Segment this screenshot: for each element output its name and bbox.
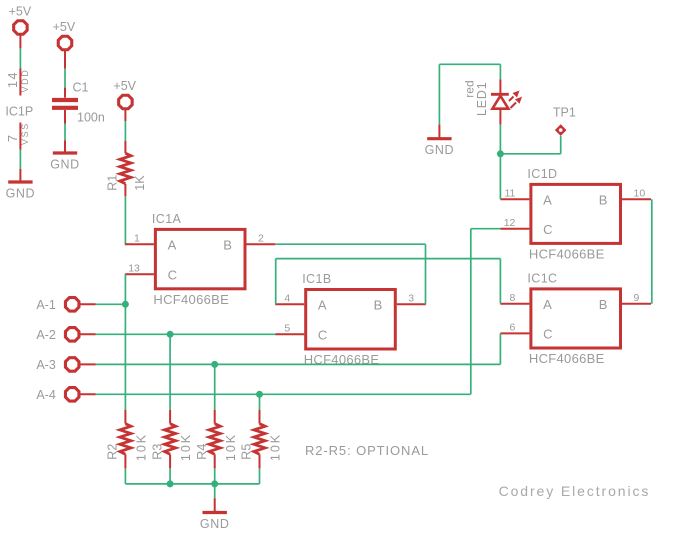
pin stub from +5V pad bbox=[19, 33, 21, 48]
wire IC1D pin10 to IC1C pin9 bbox=[651, 199, 653, 304]
junction A-3 bbox=[211, 361, 218, 368]
wire IC1B pin4 to IC1C pin8 bbox=[275, 259, 277, 305]
pin stub from A-1 bbox=[78, 303, 96, 305]
svg-text:1K: 1K bbox=[133, 175, 147, 191]
capacitor C1 100n bbox=[64, 88, 66, 98]
pin stub to GND bar (LED) bbox=[438, 125, 440, 139]
wire +5V to R1 bbox=[124, 121, 126, 141]
wire A-1 node down to R2 bbox=[124, 304, 126, 410]
svg-text:GND: GND bbox=[50, 158, 80, 172]
wire IC1A pin2 to IC1B pin3 bbox=[276, 243, 426, 245]
wire R2 to ground rail bbox=[124, 468, 126, 484]
pin stub from A-4 bbox=[78, 393, 96, 395]
svg-text:A: A bbox=[168, 237, 177, 252]
wire LED net top bbox=[439, 63, 500, 65]
LED1 emission arrow 1 bbox=[509, 97, 514, 102]
svg-text:2: 2 bbox=[258, 232, 264, 244]
svg-text:14: 14 bbox=[6, 71, 20, 88]
wire R4 to ground rail bbox=[214, 468, 216, 484]
svg-text:TP1: TP1 bbox=[553, 106, 576, 120]
IC1C pin 9 (B) bbox=[622, 303, 651, 305]
ground GND (LED) bbox=[427, 137, 451, 140]
svg-text:1: 1 bbox=[134, 232, 140, 244]
svg-text:R5: R5 bbox=[240, 444, 254, 460]
IC1D pin 11 (A) bbox=[500, 198, 529, 200]
junction A-4 bbox=[256, 391, 263, 398]
pin stub to GND bar bbox=[64, 140, 66, 153]
wire +5V to C1 bbox=[64, 69, 66, 88]
wire A-2 node down to R3 bbox=[169, 334, 171, 410]
IC1A pin 13 (C) bbox=[125, 273, 154, 275]
wire IC1A pin13 riser bbox=[124, 274, 126, 304]
IC IC1A HCF4066BE box bbox=[155, 229, 245, 288]
ground GND (IC1P) bbox=[8, 180, 32, 183]
wire A-1 to node bbox=[96, 303, 126, 305]
wire A-2 to IC1B pin5 bbox=[96, 333, 276, 335]
svg-text:B: B bbox=[223, 237, 232, 252]
svg-text:C: C bbox=[318, 328, 327, 343]
svg-text:R3: R3 bbox=[150, 444, 164, 460]
IC IC1B HCF4066BE box bbox=[306, 290, 396, 350]
svg-text:HCF4066BE: HCF4066BE bbox=[153, 292, 229, 307]
svg-text:IC1C: IC1C bbox=[527, 271, 557, 285]
ground GND (resistor network) bbox=[203, 511, 227, 514]
svg-text:Codrey Electronics: Codrey Electronics bbox=[499, 483, 651, 499]
svg-text:A: A bbox=[543, 192, 552, 207]
svg-text:HCF4066BE: HCF4066BE bbox=[529, 351, 605, 366]
IC1D pin 12 (C) bbox=[500, 228, 529, 230]
svg-text:A-4: A-4 bbox=[36, 388, 56, 402]
pin stub from +5V pad bbox=[64, 49, 66, 69]
wire A-4 node down to R5 bbox=[259, 394, 261, 410]
svg-text:R2: R2 bbox=[106, 444, 120, 460]
svg-text:R1: R1 bbox=[106, 175, 120, 191]
resistor R2 10K bbox=[124, 410, 126, 424]
svg-text:B: B bbox=[374, 298, 383, 313]
ground GND (C1) bbox=[53, 151, 77, 154]
IC1P pin 14 VDD bbox=[19, 68, 21, 95]
svg-text:8: 8 bbox=[510, 292, 516, 304]
svg-text:R4: R4 bbox=[195, 444, 209, 460]
wire C1 to GND bbox=[64, 124, 66, 141]
svg-text:IC1P: IC1P bbox=[5, 105, 33, 119]
IC1D pin 10 (B) bbox=[622, 198, 651, 200]
svg-text:LED1: LED1 bbox=[475, 82, 489, 116]
svg-text:GND: GND bbox=[425, 143, 455, 157]
svg-text:C: C bbox=[543, 327, 552, 342]
junction LED/TP1 bbox=[497, 150, 504, 157]
resistor R4 10K bbox=[214, 410, 216, 424]
svg-text:R2-R5: OPTIONAL: R2-R5: OPTIONAL bbox=[305, 443, 429, 458]
pad A-3 bbox=[65, 358, 78, 371]
pad A-4 bbox=[65, 388, 78, 401]
power +5V symbol (IC1P) bbox=[14, 21, 27, 34]
LED1 emission arrow 2 bbox=[511, 103, 517, 109]
wire top to LED cathode bbox=[499, 64, 501, 79]
test point TP1 bbox=[555, 124, 567, 136]
IC1P pin 7 VSS bbox=[19, 123, 21, 150]
svg-text:7: 7 bbox=[6, 135, 20, 142]
svg-text:A-1: A-1 bbox=[36, 298, 56, 312]
svg-text:IC1A: IC1A bbox=[152, 212, 182, 226]
IC IC1D HCF4066BE box bbox=[531, 184, 621, 243]
resistor R5 10K bbox=[259, 410, 261, 424]
wire A-3 to IC1C pin6 bbox=[96, 363, 501, 365]
svg-text:VSS: VSS bbox=[20, 122, 30, 145]
junction A-1 bbox=[122, 301, 129, 308]
svg-text:10K: 10K bbox=[269, 433, 283, 461]
wire R5 to ground rail bbox=[259, 468, 261, 484]
IC1C pin 6 (C) bbox=[500, 332, 529, 334]
svg-text:3: 3 bbox=[408, 292, 414, 304]
wire R3 to ground rail bbox=[169, 468, 171, 484]
junction R4 rail bbox=[211, 480, 218, 487]
svg-text:+5V: +5V bbox=[53, 20, 76, 34]
pin stub to GND bar bbox=[19, 169, 21, 182]
svg-text:IC1D: IC1D bbox=[527, 167, 557, 181]
svg-text:A-3: A-3 bbox=[36, 358, 56, 372]
svg-text:A: A bbox=[318, 298, 327, 313]
svg-text:GND: GND bbox=[6, 187, 36, 201]
svg-text:GND: GND bbox=[200, 517, 230, 531]
svg-text:6: 6 bbox=[510, 322, 516, 334]
svg-text:10K: 10K bbox=[135, 433, 149, 461]
wire R1 to IC1A pin 1 bbox=[124, 196, 126, 244]
junction R3 rail bbox=[167, 480, 174, 487]
wire A-4 to IC1D pin12 bbox=[96, 393, 471, 395]
wire junction to TP1 bbox=[500, 153, 560, 155]
svg-text:+5V: +5V bbox=[9, 5, 32, 19]
IC1B pin 4 (A) bbox=[275, 303, 304, 305]
IC1C pin 8 (A) bbox=[500, 303, 529, 305]
resistor R1 1K bbox=[124, 141, 126, 153]
power +5V symbol (C1) bbox=[58, 36, 71, 49]
svg-text:HCF4066BE: HCF4066BE bbox=[529, 246, 605, 261]
pin stub from +5V pad bbox=[124, 108, 126, 121]
wire IC1P VSS to GND bbox=[19, 150, 21, 170]
svg-text:9: 9 bbox=[634, 292, 640, 304]
svg-text:VDD: VDD bbox=[20, 69, 30, 93]
LED LED1 red bbox=[499, 80, 501, 94]
svg-text:13: 13 bbox=[128, 262, 140, 274]
svg-text:10K: 10K bbox=[179, 433, 193, 461]
svg-text:A: A bbox=[543, 297, 552, 312]
wire LED anode down to IC1D pin11 bbox=[499, 125, 501, 200]
pin stub from A-3 bbox=[78, 363, 96, 365]
svg-text:12: 12 bbox=[504, 217, 516, 229]
resistor R3 10K bbox=[169, 410, 171, 424]
svg-text:A-2: A-2 bbox=[36, 328, 56, 342]
power +5V symbol (R1) bbox=[119, 95, 132, 108]
pad A-2 bbox=[65, 328, 78, 341]
pin stub to GND bar bbox=[214, 498, 216, 511]
svg-text:C: C bbox=[168, 267, 177, 282]
svg-text:B: B bbox=[599, 297, 608, 312]
svg-text:C: C bbox=[543, 222, 552, 237]
svg-text:+5V: +5V bbox=[113, 79, 136, 93]
ground rail wire bbox=[125, 483, 259, 485]
wire rail to GND bbox=[214, 484, 216, 498]
IC1A pin 2 (B) bbox=[247, 243, 276, 245]
pin stub from A-2 bbox=[78, 333, 96, 335]
IC1A pin 1 (A) bbox=[125, 243, 154, 245]
svg-text:10: 10 bbox=[634, 187, 646, 199]
svg-text:100n: 100n bbox=[77, 110, 105, 124]
IC1B pin 5 (C) bbox=[275, 333, 304, 335]
wire +5V to IC1P VDD bbox=[19, 48, 21, 68]
IC1B pin 3 (B) bbox=[397, 303, 426, 305]
svg-text:B: B bbox=[599, 192, 608, 207]
svg-text:4: 4 bbox=[284, 292, 290, 304]
svg-text:C1: C1 bbox=[73, 81, 89, 95]
svg-text:10K: 10K bbox=[224, 433, 238, 461]
junction A-2 bbox=[167, 331, 174, 338]
wire A-3 node down to R4 bbox=[214, 364, 216, 409]
svg-text:IC1B: IC1B bbox=[302, 272, 331, 286]
svg-text:red: red bbox=[463, 80, 477, 97]
IC IC1C HCF4066BE box bbox=[531, 289, 621, 348]
svg-text:11: 11 bbox=[504, 187, 515, 199]
pad A-1 bbox=[65, 298, 78, 311]
svg-text:5: 5 bbox=[284, 322, 290, 334]
